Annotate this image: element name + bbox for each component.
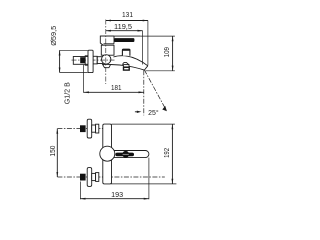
- pipe axis centerline: [72, 59, 117, 61]
- dimension 109 line: [172, 36, 174, 71]
- lever grip (black): [114, 38, 134, 42]
- bottom fitting cylinder: [92, 173, 96, 180]
- lever cap bottom: [104, 43, 115, 45]
- spout outlet face: [144, 66, 148, 70]
- dimension 193 line: [80, 198, 148, 200]
- knob highlight marks: [123, 153, 129, 155]
- cartridge circle: [102, 55, 111, 64]
- inlet thread (black): [80, 57, 85, 63]
- dimension 192 line: [171, 124, 173, 184]
- bottom fitting cone: [96, 173, 99, 182]
- angle annotation arrow: [135, 111, 138, 113]
- dimension 131 line: [106, 20, 148, 22]
- lever (plan, stadium): [108, 151, 149, 158]
- cartridge dome (plan): [100, 146, 115, 161]
- lever top line: [100, 35, 140, 37]
- bottom fitting escutcheon: [87, 168, 92, 187]
- bottom fitting: thread (black): [80, 174, 86, 181]
- diverter base: [124, 67, 130, 70]
- svg-text:25°: 25°: [148, 108, 159, 117]
- svg-text:109: 109: [163, 47, 171, 57]
- escutcheon (side): [88, 50, 93, 72]
- svg-text:Ø59,5: Ø59,5: [50, 26, 58, 46]
- diverter dome: [122, 62, 128, 64]
- spray angle dashed diagonal: [144, 70, 166, 110]
- svg-text:G1/2 B: G1/2 B: [64, 82, 72, 104]
- extension line spout tip to 109 dim: [146, 70, 175, 72]
- extension line body top to 192 dim: [112, 123, 175, 125]
- extension line top of lever to 109 dim: [140, 35, 175, 37]
- extension line to spout outer edge (131): [147, 21, 149, 66]
- dimension 150 line: [56, 129, 58, 177]
- fitting centerline top: [57, 128, 102, 130]
- spout underside curve: [111, 65, 145, 71]
- dimension D59,5 line: [59, 50, 61, 72]
- svg-text:181: 181: [111, 84, 122, 92]
- top fitting cone: [96, 124, 99, 133]
- extension line left of 193: [79, 182, 81, 200]
- body lower cone: [103, 64, 111, 67]
- top fitting: thread (black): [80, 125, 86, 132]
- svg-text:119,5: 119,5: [114, 23, 132, 31]
- aerator knob on spout: [122, 49, 129, 56]
- union stub B: [97, 57, 103, 64]
- diverter band: [123, 65, 129, 67]
- top fitting cylinder: [92, 125, 96, 132]
- fitting centerline bottom: [57, 176, 164, 178]
- extension line to spout outlet (119.5): [142, 31, 144, 65]
- dimension 181 line: [84, 91, 144, 93]
- diagonal arrowhead: [162, 106, 167, 111]
- lever cap seam: [113, 36, 115, 44]
- cartridge housing: [101, 45, 114, 55]
- svg-text:192: 192: [163, 148, 171, 158]
- lever grip bar (plan, black): [115, 153, 134, 157]
- body (plan): [103, 124, 112, 184]
- inlet nut: [85, 56, 88, 65]
- extension line lever end to 193: [148, 158, 150, 200]
- wall inlet pipe: [73, 57, 88, 65]
- union stub A: [93, 56, 97, 64]
- extension line bottom to 192 dim: [111, 183, 176, 185]
- extension lines escutcheon diameter: [60, 49, 88, 51]
- svg-text:150: 150: [49, 146, 57, 157]
- lever cap outline: [100, 36, 114, 45]
- extension line left of 181: [82, 65, 84, 93]
- dimension 119,5 line: [106, 30, 143, 32]
- centerline vertical of body: [105, 20, 107, 85]
- spout top curve: [113, 56, 147, 66]
- svg-text:193: 193: [111, 191, 123, 199]
- svg-text:131: 131: [122, 11, 133, 19]
- top fitting escutcheon: [87, 119, 92, 138]
- diverter knob (plan): [122, 151, 129, 158]
- spout axis dashed vertical: [143, 70, 145, 115]
